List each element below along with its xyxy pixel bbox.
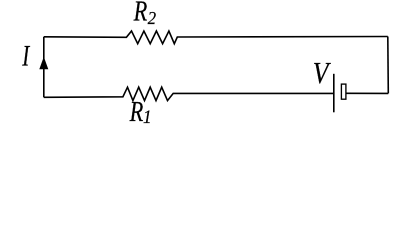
svg-text:1: 1 xyxy=(143,107,152,125)
svg-text:2: 2 xyxy=(148,7,157,28)
svg-text:V: V xyxy=(313,57,331,90)
svg-text:I: I xyxy=(21,39,30,72)
svg-text:R: R xyxy=(133,0,148,27)
svg-text:R: R xyxy=(129,97,144,125)
